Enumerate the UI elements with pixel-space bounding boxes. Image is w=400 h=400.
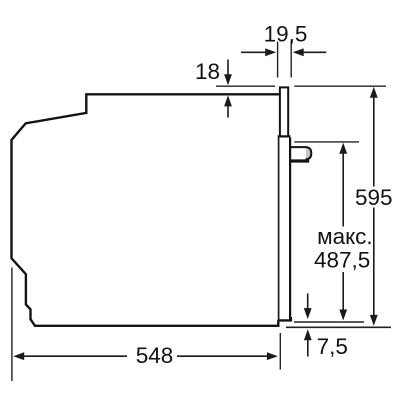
door inner line: [278, 138, 280, 320]
svg-text:18: 18: [195, 59, 220, 84]
extension line 19,5 left: [277, 42, 279, 78]
label 487,5: [314, 247, 370, 272]
label 19,5: [264, 22, 308, 47]
dimension 7,5 upper arrow: [304, 294, 312, 320]
extension line fascia top left (18): [216, 85, 275, 87]
extension line 548 left: [11, 268, 13, 382]
svg-text:макс.: макс.: [317, 224, 373, 249]
extension line fascia top right (595): [294, 85, 386, 87]
dimension 18: [224, 60, 232, 118]
svg-text:19,5: 19,5: [264, 22, 308, 47]
label 7,5: [317, 334, 348, 359]
dimension 548: [13, 352, 278, 360]
extension line 548 right: [279, 333, 281, 370]
dimension 19,5: [241, 48, 326, 56]
extension line body bottom: [286, 326, 391, 328]
label 595: [355, 185, 393, 210]
extension line 19,5 right: [290, 42, 292, 78]
label макс.: [317, 224, 373, 249]
dimension 595: [370, 87, 378, 326]
dimension 7,5 lower arrow: [304, 329, 312, 356]
door handle: [290, 147, 311, 161]
door front face line: [289, 138, 291, 320]
svg-text:548: 548: [136, 343, 174, 368]
svg-text:7,5: 7,5: [317, 334, 348, 359]
dimension макс 487,5: [339, 143, 347, 321]
extension line door bottom: [294, 321, 364, 323]
label 548: [136, 343, 174, 368]
oven body outline: [12, 94, 280, 325]
door bottom edge: [278, 317, 291, 320]
svg-text:595: 595: [355, 185, 393, 210]
extension line handle top (макс 487,5): [294, 141, 359, 143]
front fascia panel: [278, 87, 291, 136]
label 18: [195, 59, 220, 84]
svg-text:487,5: 487,5: [314, 247, 370, 272]
